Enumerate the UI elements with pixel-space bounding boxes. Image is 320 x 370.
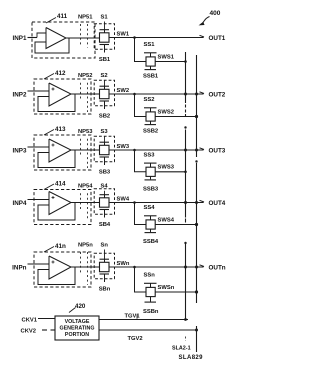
svg-text:413: 413 (55, 126, 66, 133)
svg-text:SWS1: SWS1 (158, 54, 175, 60)
svg-text:SLA829: SLA829 (179, 355, 204, 361)
svg-text:SB1: SB1 (99, 57, 111, 63)
amplifier dashed box 41n (34, 252, 91, 287)
svg-text:SB3: SB3 (99, 170, 111, 176)
svg-text:412: 412 (55, 70, 66, 77)
svg-text:NP52: NP52 (78, 73, 93, 79)
OUT4 arrow tick (200, 200, 205, 202)
svg-text:SW2: SW2 (117, 88, 130, 94)
node SS2 label (144, 97, 155, 103)
wire SWSn output to bus (155, 291, 196, 293)
svg-text:SW1: SW1 (117, 31, 130, 37)
label 411 (46, 13, 68, 23)
svg-text:OUT2: OUT2 (209, 91, 226, 98)
label SW3 (117, 144, 130, 150)
bulk terminal SSB3 label (143, 186, 159, 192)
wire SWS1 output to bus (155, 61, 185, 63)
amplifier dashed box 411 (32, 22, 95, 58)
svg-text:400: 400 (210, 10, 221, 17)
wire TGV1 (99, 319, 186, 321)
gate control S3 label (101, 129, 109, 135)
wire SSn elbow (135, 267, 147, 292)
svg-text:NP5n: NP5n (78, 242, 93, 248)
node SSn label (144, 273, 156, 279)
label 413 (44, 126, 66, 135)
node NP52 label (78, 73, 93, 79)
label SWSn (158, 285, 175, 291)
svg-text:SS1: SS1 (144, 42, 156, 48)
svg-text:OUT4: OUT4 (209, 200, 226, 207)
node NP5n label (78, 242, 93, 248)
net OUT4 label (209, 200, 226, 207)
svg-text:SSB4: SSB4 (143, 239, 159, 245)
svg-text:INPn: INPn (12, 264, 26, 271)
junction bus2 on OUT4 (195, 201, 198, 204)
node SS3 junction (133, 149, 136, 152)
annotation SLA829 (179, 355, 204, 361)
junction SWS3 on share bus 1 (184, 171, 187, 174)
node NP51 label (78, 14, 93, 20)
transistor switch SW4 (100, 195, 110, 218)
label SWS1 (158, 54, 175, 60)
junction bus2 on OUTn (195, 266, 198, 269)
gate control S4 label (101, 184, 109, 190)
share bus 2 (vertical net) (195, 55, 197, 352)
node NP54 label (78, 184, 93, 190)
transistor switch SWS4 (144, 216, 157, 233)
label SWS4 (158, 217, 175, 223)
junction bus2 on OUT3 (195, 149, 198, 152)
node NP53 dashed leader (81, 139, 88, 168)
junction bus1 on OUTn (184, 266, 187, 269)
voltage generating portion text (60, 319, 95, 338)
op-amp 413 (38, 139, 75, 168)
svg-text:GENERATING: GENERATING (60, 326, 95, 332)
junction SWS4 on share bus 2 (195, 223, 198, 226)
transistor switch SWS1 (144, 53, 157, 70)
net TGV1 label (125, 314, 141, 320)
OUT2 arrow tick (200, 92, 205, 94)
wire SS1 elbow (135, 38, 147, 62)
voltage generating portion box 420 (55, 316, 99, 340)
svg-text:SWSn: SWSn (158, 285, 175, 291)
svg-text:SW3: SW3 (117, 144, 130, 150)
bulk terminal SSBn label (143, 309, 159, 315)
svg-text:SWS3: SWS3 (158, 165, 175, 171)
net INP4 input label (13, 200, 27, 207)
net INPn input label (12, 264, 26, 271)
switch SW1 dashed box (94, 24, 114, 50)
wire INP3 to amplifier (28, 146, 50, 148)
svg-text:TGV2: TGV2 (128, 336, 143, 342)
label 412 (44, 70, 66, 79)
wire SS3 elbow (135, 150, 147, 172)
svg-text:NP53: NP53 (78, 129, 93, 135)
wire INP2 to amplifier (28, 90, 50, 92)
junction TGV2 bus2 (195, 329, 198, 332)
svg-text:TGV1: TGV1 (125, 314, 141, 320)
transistor switch SW3 (100, 142, 110, 165)
wire CKV2 (42, 329, 55, 331)
label 414 (44, 181, 66, 190)
transistor switch SW1 (100, 30, 110, 53)
net OUT2 label (209, 91, 226, 98)
switch SW3 dashed box (94, 136, 114, 162)
svg-text:S2: S2 (101, 73, 108, 79)
svg-text:INP1: INP1 (13, 35, 27, 42)
node SS3 label (144, 152, 156, 158)
net TGV2 label (128, 336, 186, 342)
OUTn arrow tick (200, 265, 205, 267)
wire INP4 to amplifier (28, 199, 50, 201)
net OUT1 label (209, 35, 226, 42)
junction bus1 on OUT2 (184, 93, 187, 96)
label SW4 (117, 196, 130, 202)
node SS1 label (144, 42, 156, 48)
svg-text:SWS4: SWS4 (158, 217, 175, 223)
svg-text:OUT3: OUT3 (209, 147, 226, 154)
label SWn (117, 261, 130, 267)
wire SS2 elbow (135, 94, 147, 117)
svg-text:S1: S1 (101, 14, 109, 20)
amplifier dashed box 414 (34, 190, 91, 225)
transistor switch SW2 (100, 86, 110, 109)
svg-text:SSB1: SSB1 (143, 74, 159, 80)
wire OUT1 line (109, 37, 204, 39)
svg-text:NP51: NP51 (78, 14, 93, 20)
svg-text:SS4: SS4 (144, 205, 156, 211)
node SS2 junction (133, 93, 136, 96)
OUT3 arrow tick (200, 148, 205, 150)
net INP2 input label (13, 91, 27, 98)
node NP5n dashed leader (81, 252, 88, 285)
junction SWS1 on share bus 1 (184, 60, 187, 63)
svg-text:OUTn: OUTn (209, 264, 226, 271)
label 420 (69, 303, 86, 313)
op-amp 411 (35, 28, 69, 54)
junction SWS2 on share bus 2 (195, 115, 198, 118)
wire TGV2 (99, 329, 197, 331)
net CKV2 label (21, 329, 36, 335)
gate leader S2 (104, 80, 106, 86)
gate control S1 label (101, 14, 109, 20)
junction bus2 on OUT2 (195, 93, 198, 96)
svg-text:VOLTAGE: VOLTAGE (65, 319, 90, 325)
op-amp 414 (38, 192, 75, 221)
junction bus1 on OUT4 (184, 201, 187, 204)
bulk terminal SSB4 label (143, 239, 159, 245)
svg-text:OUT1: OUT1 (209, 35, 226, 42)
bulk terminal SBn label (99, 287, 111, 293)
svg-text:PORTION: PORTION (65, 332, 89, 338)
svg-text:SWn: SWn (117, 261, 130, 267)
wire CKV1 (38, 318, 55, 320)
svg-text:SS3: SS3 (144, 152, 156, 158)
wire OUT2 line (109, 93, 204, 95)
junction bus1 on OUT3 (184, 149, 187, 152)
gate leader S1 (104, 22, 106, 30)
svg-text:S3: S3 (101, 129, 109, 135)
net OUTn label (209, 264, 226, 271)
net OUT3 label (209, 147, 226, 154)
wire INP1 to amplifier (28, 37, 38, 39)
node SS1 junction (133, 36, 136, 39)
bulk terminal SB1 label (99, 57, 111, 63)
svg-text:SSB2: SSB2 (143, 129, 158, 135)
bulk terminal SSB1 label (143, 74, 159, 80)
svg-text:SB4: SB4 (99, 222, 111, 228)
svg-text:SLA2-1: SLA2-1 (172, 346, 191, 352)
svg-text:SWS2: SWS2 (158, 109, 174, 115)
share bus 1 (vertical net) (184, 52, 188, 320)
switch SW4 dashed box (94, 189, 114, 215)
gate control Sn label (101, 242, 109, 248)
OUT1 arrow tick (200, 35, 205, 37)
svg-text:Sn: Sn (101, 242, 109, 248)
amplifier dashed box 412 (34, 79, 91, 114)
net INP1 input label (13, 35, 27, 42)
svg-text:SSB3: SSB3 (143, 186, 159, 192)
label SW1 (117, 31, 130, 37)
svg-text:SSn: SSn (144, 273, 156, 279)
bulk terminal SB3 label (99, 170, 111, 176)
svg-text:CKV2: CKV2 (21, 329, 36, 335)
amplifier dashed box 413 (34, 135, 91, 170)
wire SWS4 output to bus (155, 224, 196, 226)
wire OUT4 line (109, 202, 204, 204)
gate leader S4 (104, 191, 106, 195)
svg-text:SSBn: SSBn (143, 309, 159, 315)
svg-text:411: 411 (57, 13, 68, 20)
figure reference 400 (200, 10, 221, 25)
switch SW2 dashed box (94, 80, 114, 106)
net CKV1 label (22, 318, 38, 324)
node SS4 label (144, 205, 156, 211)
transistor switch SWS2 (144, 108, 157, 125)
node NP53 label (78, 129, 93, 135)
node NP54 dashed leader (81, 193, 88, 220)
wire OUT3 line (109, 149, 204, 151)
gate control S2 label (101, 73, 108, 79)
gate leader S3 (104, 136, 106, 142)
svg-text:420: 420 (75, 303, 86, 310)
op-amp 412 (38, 83, 75, 112)
wire SS4 elbow (135, 203, 147, 225)
svg-text:INP2: INP2 (13, 91, 27, 98)
wire INPn to amplifier (28, 263, 50, 265)
svg-text:41n: 41n (55, 243, 66, 250)
junction SWSn on share bus 2 (195, 290, 198, 293)
svg-text:CKV1: CKV1 (22, 318, 38, 324)
switch SWn dashed box (94, 253, 114, 279)
wire op-amp 411 output (66, 37, 100, 39)
net INP3 input label (13, 147, 27, 154)
svg-text:SS2: SS2 (144, 97, 155, 103)
svg-text:SW4: SW4 (117, 196, 130, 202)
annotation SLA2-1 (172, 346, 191, 352)
wire op-amp 414 output (71, 202, 100, 204)
svg-text:NP54: NP54 (78, 184, 93, 190)
svg-text:SB2: SB2 (99, 114, 110, 120)
node SS4 junction (133, 201, 136, 204)
gate leader Sn (104, 250, 106, 260)
wire SWS3 output to bus (155, 171, 185, 173)
transistor switch SWS3 (144, 163, 157, 180)
bulk terminal SSB2 label (143, 129, 158, 135)
wire OUTn line (109, 266, 204, 268)
svg-text:INP4: INP4 (13, 200, 27, 207)
op-amp 41n (38, 256, 75, 285)
wire op-amp 41n output (71, 266, 100, 268)
svg-text:SBn: SBn (99, 287, 111, 293)
junction TGV1 bus1 (184, 318, 187, 321)
node SSn junction (133, 266, 136, 269)
svg-text:INP3: INP3 (13, 147, 27, 154)
label SWS3 (158, 165, 175, 171)
wire op-amp 412 output (71, 93, 100, 95)
transistor switch SWSn (144, 283, 157, 302)
svg-text:414: 414 (55, 181, 66, 188)
label SWS2 (158, 109, 174, 115)
node NP52 dashed leader (81, 83, 88, 112)
label 41n (44, 243, 66, 252)
wire op-amp 413 output (71, 149, 100, 151)
bulk terminal SB4 label (99, 222, 111, 228)
label SW2 (117, 88, 130, 94)
transistor switch SWn (100, 259, 110, 282)
bulk terminal SB2 label (99, 114, 110, 120)
node NP51 dashed leader (81, 24, 88, 48)
wire SWS2 output to bus (155, 116, 196, 118)
